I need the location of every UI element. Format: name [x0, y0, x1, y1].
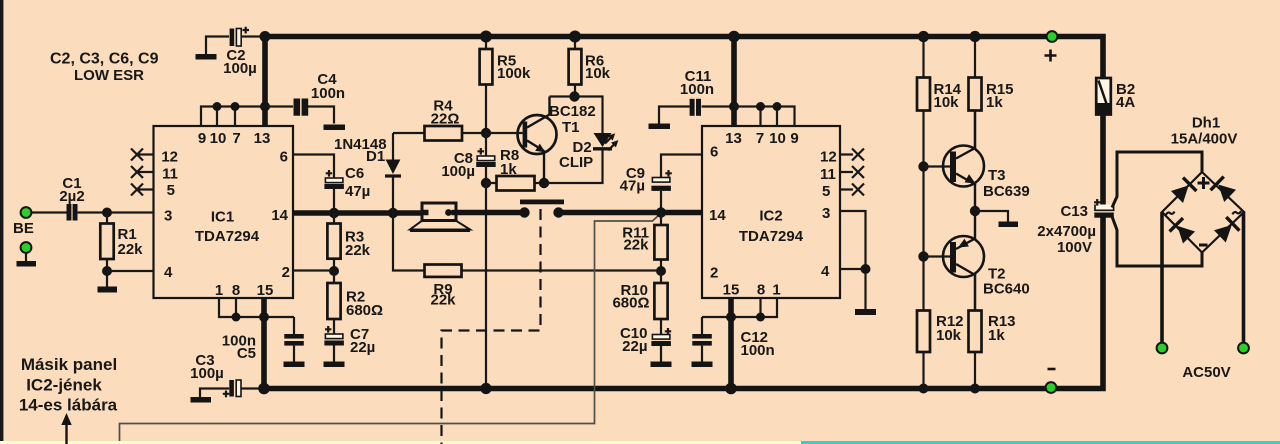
transistor Q1 BC182 — [486, 97, 596, 184]
svg-text:15: 15 — [723, 282, 740, 299]
pin label 13 — [254, 130, 271, 147]
node pin15 — [259, 312, 269, 322]
resistor R10 — [612, 271, 667, 335]
svg-text:100n: 100n — [680, 81, 714, 98]
pin label 6 IC2 — [710, 144, 718, 161]
pin label 3 — [164, 208, 172, 225]
svg-text:1: 1 — [215, 282, 223, 299]
node R3/R2 pin2 — [329, 266, 339, 276]
capacitor C6 — [324, 165, 370, 213]
wire speaker to switch — [456, 210, 521, 216]
node pin10 — [213, 102, 222, 111]
capacitor C11 — [649, 68, 735, 129]
svg-text:9: 9 — [790, 130, 798, 147]
resistor R3 — [327, 213, 370, 271]
bridge ac label right — [1232, 211, 1241, 214]
wire IC1 pin13 supply drop — [262, 37, 268, 127]
pin label 2 IC2 — [710, 265, 718, 282]
pin label 1 IC2 — [772, 282, 780, 299]
pin label 4 IC2 — [821, 263, 830, 280]
wire collector line to D2 — [550, 97, 603, 134]
terminal negative — [1046, 369, 1057, 393]
svg-text:47µ: 47µ — [345, 183, 370, 200]
svg-text:4: 4 — [821, 263, 830, 280]
pin label 10 — [210, 130, 227, 147]
svg-text:22k: 22k — [623, 237, 649, 254]
svg-text:6: 6 — [710, 144, 718, 161]
pin label 9 IC2 — [790, 130, 798, 147]
pin label 15 — [257, 282, 274, 299]
node C8/R8 — [481, 178, 491, 188]
pin label 2 — [282, 264, 290, 281]
svg-text:10k: 10k — [585, 65, 611, 82]
capacitor C2 — [196, 27, 257, 77]
svg-text:Másik panel: Másik panel — [21, 355, 117, 374]
wire C8 node to negative rail — [485, 183, 487, 389]
pin label 14 — [271, 207, 288, 224]
nc pin 11 IC2 X — [840, 166, 864, 178]
pin label 14 IC2 — [709, 207, 726, 224]
wire AC right — [1242, 212, 1246, 343]
node IC1 pin13 top line — [260, 102, 270, 112]
svg-text:10: 10 — [769, 130, 786, 147]
wire IC2 pin13 supply drop — [731, 37, 737, 127]
resistor R1 — [100, 213, 143, 287]
svg-text:1k: 1k — [988, 327, 1005, 344]
terminal AC left — [1157, 343, 1168, 354]
terminal positive — [1045, 31, 1058, 61]
page left border — [0, 0, 3, 441]
wire IC2 pin1/pin8 bottom line — [702, 298, 777, 317]
pin label 12 IC2 — [820, 149, 837, 166]
node R8/T1 emitter/D2 — [539, 178, 549, 188]
wire IC2 pin15 to negative rail — [728, 298, 734, 389]
svg-text:Dh1: Dh1 — [1192, 115, 1220, 132]
bridge diode lower-left — [1170, 218, 1196, 244]
svg-text:7: 7 — [756, 130, 764, 147]
svg-text:D1: D1 — [366, 148, 385, 165]
wire C2 to rail — [241, 35, 262, 37]
IC op-amp U2 box IC2 — [702, 126, 840, 298]
arrow to other panel — [61, 413, 71, 444]
svg-text:10k: 10k — [934, 94, 960, 111]
led D2 CLIP — [544, 133, 618, 183]
node pin8 — [232, 313, 241, 322]
svg-text:T1: T1 — [562, 119, 580, 136]
svg-text:22k: 22k — [118, 241, 144, 258]
wire bridge positive to C13 — [1112, 152, 1202, 208]
svg-text:14: 14 — [709, 207, 726, 224]
resistor R4 — [393, 98, 486, 141]
node rail IC2 pin13 — [728, 31, 740, 43]
capacitor C9 — [620, 155, 702, 213]
svg-text:22µ: 22µ — [622, 338, 647, 355]
ground R1 — [98, 287, 118, 293]
bridge plus label — [1198, 177, 1210, 189]
wire bridge negative to C13 — [1112, 217, 1202, 267]
resistor R12 — [917, 311, 964, 389]
node D1/R9 tap — [388, 208, 398, 218]
pin label 9 — [198, 130, 206, 147]
note LOW ESR — [50, 51, 159, 85]
node rail R14 — [918, 31, 929, 42]
terminal BE ground — [17, 242, 37, 266]
bridge minus label — [1199, 244, 1208, 247]
ground IC2 pin4 — [855, 309, 876, 315]
capacitor C10 — [620, 325, 672, 367]
wire IC1 pin1/pin8 bottom line — [219, 298, 294, 317]
svg-text:14-es lábára: 14-es lábára — [19, 396, 118, 415]
svg-text:AC50V: AC50V — [1182, 364, 1230, 381]
nc pin 5 IC2 X — [840, 184, 864, 196]
svg-text:12: 12 — [161, 149, 178, 166]
capacitor C7 — [324, 326, 376, 367]
capacitor C1 — [59, 175, 84, 221]
pin label 3 IC2 — [822, 205, 830, 222]
nc pin 11 X — [131, 166, 154, 178]
pin label 5 — [167, 182, 175, 199]
terminal BE input — [13, 207, 34, 237]
pin label 7 IC2 — [756, 130, 764, 147]
node switch right — [553, 207, 563, 217]
speaker — [410, 203, 470, 230]
resistor R15 — [969, 37, 1014, 151]
dashed switch linkage — [442, 209, 541, 444]
svg-text:TDA7294: TDA7294 — [739, 228, 804, 245]
svg-text:100µ: 100µ — [441, 163, 475, 180]
switch contact bar — [520, 200, 564, 205]
diode D1 1N4148 — [334, 133, 401, 213]
ground T3/T2 emitters — [975, 211, 1018, 227]
pin label 1 — [215, 282, 223, 299]
resistor R14 — [917, 37, 962, 311]
node pin15 IC2 — [726, 312, 736, 322]
svg-text:6: 6 — [280, 149, 288, 166]
capacitor C4 — [294, 71, 346, 130]
pin label 4 — [164, 264, 173, 281]
svg-text:13: 13 — [725, 130, 742, 147]
wire AC left — [1160, 212, 1164, 343]
node pin3/pin4 — [861, 264, 871, 274]
svg-text:C2, C3, C6, C9: C2, C3, C6, C9 — [50, 51, 159, 68]
wire C1 to IC1 pin3 — [78, 211, 154, 213]
svg-text:C6: C6 — [345, 165, 364, 182]
svg-text:TDA7294: TDA7294 — [195, 228, 260, 245]
wire IC1 pin15 to negative rail — [261, 298, 267, 389]
pin label 15 IC2 — [723, 282, 740, 299]
wire IC2 pin3/pin4 ground — [840, 211, 866, 309]
svg-text:100µ: 100µ — [223, 60, 257, 77]
svg-text:C13: C13 — [1060, 203, 1088, 220]
svg-text:680Ω: 680Ω — [346, 302, 383, 319]
nc pin 12 IC2 X — [840, 149, 864, 161]
svg-text:47µ: 47µ — [620, 178, 645, 195]
node T2 base — [918, 251, 928, 261]
pin label 10 IC2 — [769, 130, 786, 147]
svg-text:IC2: IC2 — [759, 208, 782, 225]
svg-text:8: 8 — [757, 282, 765, 299]
svg-text:14: 14 — [271, 207, 288, 224]
svg-text:8: 8 — [232, 282, 240, 299]
node pin7 IC2 — [756, 102, 765, 111]
node pin7 — [231, 102, 240, 111]
pin label 11 IC2 — [820, 166, 836, 183]
svg-text:22Ω: 22Ω — [431, 111, 460, 128]
pin label 5 IC2 — [822, 183, 830, 200]
bridge diode upper-right — [1211, 177, 1237, 203]
svg-text:1k: 1k — [986, 94, 1003, 111]
node negative rail / pin15 / C3 — [258, 383, 270, 395]
capacitor C8 — [441, 133, 495, 183]
node R6/T1 collector/D2 — [569, 91, 579, 101]
svg-text:11: 11 — [162, 166, 178, 183]
svg-text:11: 11 — [820, 166, 836, 183]
svg-text:BC640: BC640 — [983, 281, 1030, 298]
svg-text:680Ω: 680Ω — [612, 295, 649, 312]
svg-text:5: 5 — [167, 182, 175, 199]
node C6/R3 tap — [329, 208, 339, 218]
svg-text:4A: 4A — [1116, 94, 1135, 111]
node rail/C2/IC1-pin13 — [260, 31, 271, 42]
IC op-amp U1 box IC1 — [154, 126, 294, 298]
capacitor C12 — [692, 317, 775, 367]
pin label 12 — [161, 149, 178, 166]
svg-text:CLIP: CLIP — [559, 154, 593, 171]
svg-text:15A/400V: 15A/400V — [1171, 131, 1238, 148]
svg-text:9: 9 — [198, 130, 206, 147]
pin label 8 IC2 — [757, 282, 765, 299]
pin label 7 — [232, 130, 240, 147]
note to other panel — [19, 355, 118, 415]
node T3/T2 emitter — [970, 206, 980, 216]
svg-text:1k: 1k — [500, 161, 517, 178]
bridge rectifier Dh1 — [1162, 115, 1244, 253]
svg-text:BC182: BC182 — [549, 103, 596, 120]
svg-text:LOW ESR: LOW ESR — [74, 67, 144, 84]
svg-text:10k: 10k — [936, 327, 962, 344]
wire fuse to C13 — [1100, 115, 1106, 207]
svg-text:22k: 22k — [430, 292, 456, 309]
svg-text:3: 3 — [822, 205, 830, 222]
node pin8 IC2 — [756, 313, 765, 322]
nc pin 12 X — [131, 149, 154, 161]
svg-text:100n: 100n — [311, 85, 345, 102]
pin label 11 — [162, 166, 178, 183]
wire positive rail — [265, 37, 1103, 79]
node R13 rail — [970, 384, 980, 394]
bridge ac label left — [1166, 212, 1175, 215]
wire BE to C1 — [32, 211, 67, 213]
svg-text:IC2-jének: IC2-jének — [26, 376, 102, 395]
node T3 base — [918, 161, 928, 171]
svg-text:5: 5 — [822, 183, 830, 200]
svg-text:BC639: BC639 — [983, 183, 1030, 200]
page bottom yellow strip — [0, 441, 801, 444]
node rail R5 — [480, 31, 492, 43]
resistor R13 — [969, 273, 1016, 389]
node R11/R10 pin2 — [656, 266, 666, 276]
resistor R2 — [327, 271, 383, 334]
fuse B2 — [1096, 78, 1135, 115]
wire IC1 pin14 output — [293, 210, 422, 216]
node rail R15 — [969, 31, 980, 42]
svg-text:2x4700µ: 2x4700µ — [1037, 223, 1096, 240]
page bottom cyan strip — [801, 441, 1280, 444]
node R1 bottom — [102, 266, 112, 276]
node R12 rail — [919, 384, 929, 394]
svg-text:100V: 100V — [1057, 239, 1092, 256]
capacitor C3 — [190, 352, 262, 403]
node R4/R5/C8/T1 base — [481, 128, 491, 138]
svg-text:15: 15 — [257, 282, 274, 299]
resistor R8 — [486, 147, 544, 191]
resistor R11 — [622, 213, 667, 272]
wire IC1 pin2 — [293, 269, 334, 271]
wire switch to IC2 pin14 — [559, 210, 703, 216]
node switch left — [519, 207, 529, 217]
node pin10 IC2 — [773, 102, 782, 111]
node C8 line negative rail — [480, 383, 491, 394]
resistor R5 — [480, 37, 531, 134]
capacitor C5 — [222, 317, 305, 367]
capacitor C13 — [1037, 199, 1114, 256]
pin label 13 IC2 — [725, 130, 742, 147]
node C9/R11 tap — [656, 207, 666, 217]
node IC2 pin15 negative rail — [725, 383, 737, 395]
svg-text:T3: T3 — [988, 167, 1006, 184]
svg-text:100k: 100k — [497, 65, 531, 82]
svg-text:IC1: IC1 — [211, 209, 234, 226]
node rail R6 — [569, 31, 581, 43]
pin label 8 — [232, 282, 240, 299]
wire IC1 pins 9/10/7 top line — [201, 107, 293, 127]
bridge diode upper-left — [1170, 178, 1196, 204]
transistor Q2 BC640 — [924, 211, 1030, 311]
wire IC2 pins 7/10/9 top line — [734, 107, 795, 127]
svg-text:22k: 22k — [345, 242, 371, 259]
bridge diode lower-right — [1213, 217, 1239, 243]
svg-text:BE: BE — [13, 220, 34, 237]
svg-text:2µ2: 2µ2 — [59, 188, 84, 205]
svg-text:100n: 100n — [741, 342, 775, 359]
svg-text:3: 3 — [164, 208, 172, 225]
svg-text:12: 12 — [820, 149, 837, 166]
feedback wire to other panel — [120, 214, 661, 441]
svg-text:4: 4 — [164, 264, 173, 281]
svg-text:2: 2 — [282, 264, 290, 281]
svg-text:100µ: 100µ — [190, 365, 224, 382]
resistor R9 — [393, 213, 661, 309]
svg-text:13: 13 — [254, 130, 271, 147]
label AC50V — [1182, 364, 1230, 381]
wire negative rail — [264, 217, 1103, 389]
svg-text:10: 10 — [210, 130, 227, 147]
svg-text:7: 7 — [232, 130, 240, 147]
wire IC1 pin4 — [107, 270, 154, 272]
svg-text:1: 1 — [772, 282, 780, 299]
resistor R6 — [569, 37, 611, 97]
transistor Q3 BC639 — [924, 111, 1030, 212]
svg-text:C5: C5 — [237, 345, 256, 362]
svg-text:22µ: 22µ — [350, 339, 375, 356]
node IC2 pin13 top line — [729, 102, 739, 112]
wire IC1 pin6 — [293, 155, 334, 179]
nc pin 5 X — [131, 184, 154, 196]
node R1 top — [102, 208, 112, 218]
terminal AC right — [1238, 343, 1249, 354]
svg-text:2: 2 — [710, 265, 718, 282]
pin label 6 — [280, 149, 288, 166]
